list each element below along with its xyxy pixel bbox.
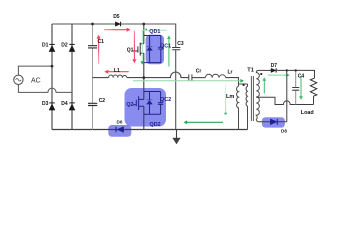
wire Q1 source to switch node bbox=[143, 53, 145, 77]
svg-text:QC2: QC2 bbox=[160, 97, 171, 103]
wire green arrow QC1 up bbox=[167, 35, 171, 66]
AC source bbox=[14, 75, 23, 84]
svg-text:QD2: QD2 bbox=[150, 122, 161, 128]
wire red current arrow L1 left bbox=[104, 70, 129, 74]
wire center tap to output return with hop bbox=[256, 97, 313, 104]
svg-text:D6: D6 bbox=[117, 120, 123, 125]
wire green loop QD1 bbox=[140, 29, 166, 65]
wire resonant node horizontal with hop over bus bbox=[93, 72, 189, 78]
svg-text:D5: D5 bbox=[113, 14, 120, 20]
svg-text:Q1: Q1 bbox=[127, 47, 134, 53]
svg-text:L1: L1 bbox=[114, 68, 120, 74]
wire AC source bottom lead with hop over left leg bbox=[18, 84, 72, 92]
svg-text:D4: D4 bbox=[61, 101, 68, 107]
capacitor C1 plates bbox=[88, 46, 97, 48]
svg-text:T1: T1 bbox=[247, 68, 254, 74]
svg-text:Q2: Q2 bbox=[126, 102, 133, 108]
op cell Q1 body diode QD1 bbox=[144, 36, 161, 63]
highlight box D6 bbox=[108, 125, 131, 137]
transformer T1 core bbox=[251, 76, 253, 121]
diode D5 bbox=[115, 22, 120, 27]
wire bridge right leg D2/D4 column bbox=[71, 24, 73, 130]
wire red current arrow C1 up bbox=[97, 35, 101, 64]
svg-text:D3: D3 bbox=[42, 101, 49, 107]
highlight box D8 bbox=[262, 117, 285, 127]
diode D4 bbox=[69, 103, 75, 110]
capacitor C2 plates bbox=[88, 103, 97, 105]
svg-text:C3: C3 bbox=[177, 41, 184, 47]
op cell Q2 body diode QD2 bbox=[144, 92, 161, 115]
svg-text:Lr: Lr bbox=[228, 69, 233, 75]
ground bbox=[173, 130, 181, 145]
transformer T1 magnetizing inductor Lm winding bbox=[237, 84, 239, 130]
diode D3 bbox=[49, 103, 55, 110]
wire DC bus right vertical lower (C3 bottom to bottom rail) bbox=[175, 50, 177, 130]
inductor Lr bbox=[205, 74, 225, 77]
highlight box Q2 bbox=[125, 88, 167, 127]
node junction switch node bbox=[142, 76, 145, 79]
node green return tip bbox=[225, 113, 227, 115]
wire Q2 source to bottom rail bbox=[143, 106, 145, 129]
diode D2 bbox=[69, 44, 75, 51]
svg-text:QC1: QC1 bbox=[160, 43, 171, 49]
node primary polarity dot bbox=[243, 84, 245, 86]
diode D6 bbox=[116, 127, 124, 133]
wire Cr to Lr segment bbox=[192, 77, 205, 79]
wire Lr to transformer top node bbox=[226, 78, 248, 84]
svg-text:QD1: QD1 bbox=[149, 29, 160, 35]
wire AC source top lead bbox=[18, 66, 52, 75]
svg-text:C4: C4 bbox=[298, 74, 305, 80]
svg-text:AC: AC bbox=[31, 77, 41, 84]
capacitor Cr series plates bbox=[189, 74, 192, 80]
transistor Q1 mosfet symbol bbox=[133, 43, 144, 56]
wire red current arrow Q1 down bbox=[132, 31, 136, 64]
wire green return vertical fading bbox=[225, 84, 227, 112]
svg-text:D1: D1 bbox=[42, 43, 49, 49]
diode D1 bbox=[49, 44, 55, 51]
node junction C1 top rail bbox=[91, 23, 94, 26]
node secondary polarity dot bbox=[260, 73, 262, 75]
resistor Load bbox=[310, 78, 316, 96]
svg-text:Load: Load bbox=[301, 110, 314, 116]
highlight box QD1 bbox=[146, 35, 164, 65]
node junction D8 riser top bbox=[286, 69, 288, 71]
transformer T1 secondary winding lower bbox=[256, 97, 259, 122]
wire green arrow output right bbox=[268, 73, 290, 77]
node junction C4 top bbox=[295, 69, 297, 71]
svg-text:Lm: Lm bbox=[226, 94, 234, 100]
node junction bridge AC top bbox=[51, 65, 54, 68]
diode D7 bbox=[271, 68, 276, 72]
wire output top rail D7 to load bbox=[276, 70, 314, 78]
wire D8 branch bottom bbox=[259, 121, 287, 123]
wire green arrow return left bbox=[184, 120, 224, 124]
wire bridge left leg D1/D3 column bbox=[51, 24, 53, 130]
capacitor C3 bbox=[172, 48, 180, 50]
wire Q1 drain vertical bbox=[143, 24, 145, 44]
transformer T1 secondary winding upper bbox=[256, 70, 259, 97]
svg-text:D2: D2 bbox=[61, 43, 68, 49]
wire switch node to Q2 drain bbox=[143, 78, 145, 100]
wire secondary top to D7 bbox=[259, 69, 271, 71]
wire green arrow secondary up bbox=[262, 77, 266, 93]
inductor L1 bbox=[109, 75, 127, 78]
wire green arrow resonant path right bbox=[133, 79, 244, 83]
svg-text:D8: D8 bbox=[281, 129, 287, 134]
wire green arrow C4 down bbox=[299, 76, 303, 100]
svg-text:C2: C2 bbox=[99, 98, 106, 104]
capacitor QC2 bbox=[158, 92, 163, 115]
capacitor C4 bbox=[295, 70, 297, 104]
wire DC bus right vertical upper (to C3 top) bbox=[175, 24, 177, 48]
wire bottom rail bbox=[52, 129, 248, 131]
wire C1/C2 gray column bbox=[92, 24, 94, 130]
wire D8 cathode riser bbox=[286, 70, 288, 121]
wire load bottom lead bbox=[313, 96, 315, 104]
node junction Q1 drain top rail bbox=[142, 23, 145, 26]
svg-text:D7: D7 bbox=[271, 63, 278, 69]
capacitor QC1 bbox=[158, 36, 163, 63]
wire red current arrow top (through D5) bbox=[104, 28, 131, 32]
svg-text:Cr: Cr bbox=[196, 69, 202, 75]
transformer T1 primary winding bbox=[246, 84, 247, 130]
svg-text:C1: C1 bbox=[98, 39, 105, 45]
wire top rail bbox=[52, 23, 176, 25]
transistor Q2 mosfet symbol bbox=[133, 96, 144, 110]
diode D8 bbox=[270, 119, 277, 125]
